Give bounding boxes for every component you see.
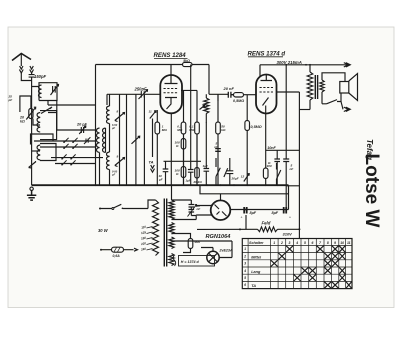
capacitor 10uF [163, 161, 169, 185]
svg-text:1: 1 [273, 241, 275, 245]
svg-text:nF: nF [214, 145, 218, 149]
svg-text:12: 12 [241, 175, 245, 179]
wire tuned circuit 2 frame [40, 111, 57, 140]
wire [48, 104, 96, 106]
wire top HT bus [96, 64, 210, 66]
svg-text:MΩ: MΩ [162, 128, 168, 132]
inductor L3 [37, 145, 40, 160]
transformer core [315, 75, 317, 99]
svg-text:RENS 1284: RENS 1284 [154, 52, 187, 59]
tube RENS 1284 grids [164, 89, 179, 93]
wire pot loop [20, 96, 31, 112]
svg-text:1: 1 [244, 247, 246, 251]
switch contact 8 [115, 113, 125, 122]
resistor 50kOhm [217, 94, 219, 185]
svg-text:20 nF: 20 nF [223, 86, 235, 91]
ground [27, 191, 36, 201]
wire [32, 150, 40, 152]
svg-text:8µF: 8µF [250, 211, 257, 215]
wire [51, 157, 103, 159]
svg-text:RENS 1374 d: RENS 1374 d [248, 50, 286, 57]
wire [309, 65, 311, 110]
label H=1374d [173, 255, 176, 266]
plug connector antenna [19, 66, 23, 73]
svg-text:1µF: 1µF [203, 164, 209, 168]
wire right HT bus [260, 65, 348, 76]
transformer secondary [320, 80, 324, 92]
switch contact 11 [150, 111, 156, 119]
wire [152, 119, 154, 158]
label underline 2 [248, 56, 283, 58]
wire [119, 94, 121, 185]
svg-text:10nF: 10nF [267, 146, 276, 150]
junction [309, 64, 311, 66]
svg-text:Lotse W: Lotse W [361, 154, 382, 228]
junction dots [95, 184, 97, 186]
transformer secondary h1 [169, 223, 174, 235]
capacitor 8uF b [284, 207, 287, 214]
svg-text:0,5MΩ: 0,5MΩ [251, 125, 262, 129]
plug connector ground [30, 187, 33, 190]
svg-text:11: 11 [347, 241, 351, 245]
inductor L4 [97, 128, 100, 152]
wire chassis corner [288, 185, 290, 209]
svg-text:Mittel: Mittel [251, 255, 262, 259]
wire B+ row [230, 209, 288, 211]
svg-text:9: 9 [334, 241, 336, 245]
wire pot stub [205, 94, 207, 122]
inductor L7 [107, 152, 110, 170]
switch contact S2 [41, 107, 52, 114]
wire cathode rail [265, 114, 267, 186]
wire left rail [31, 77, 33, 185]
wire tube1 cathode [170, 113, 172, 185]
svg-text:3: 3 [244, 262, 246, 266]
tube RENS 1284 anode [165, 75, 178, 84]
svg-text:kΩ: kΩ [20, 120, 25, 124]
wire loop lower box [31, 134, 54, 145]
wire chassis bus [32, 184, 289, 186]
resistor 0.5MOhm b [246, 95, 248, 186]
svg-text:310V: 310V [283, 232, 293, 237]
wire [100, 94, 110, 185]
capacitor 1uF a [188, 90, 194, 185]
fuse 0.6A [101, 249, 134, 251]
wire antenna lead [20, 54, 22, 67]
label underline [154, 57, 188, 59]
svg-text:5: 5 [244, 276, 246, 280]
switch mains [100, 200, 156, 209]
variable capacitor tuning [132, 136, 140, 144]
svg-text:+: + [289, 216, 291, 220]
switch contact 9 [115, 158, 125, 167]
svg-text:nF: nF [290, 167, 294, 171]
table grid Schalter [242, 239, 352, 289]
speaker driver [340, 82, 349, 94]
svg-text:Schalter: Schalter [249, 241, 264, 245]
capacitor 5nF b [283, 159, 289, 162]
potentiometer 20kOhm [29, 109, 33, 119]
resistor 0.1MOhm a [183, 90, 185, 185]
svg-text:1µF: 1µF [185, 179, 191, 183]
capacitor 250pF [139, 90, 148, 99]
svg-text:RGN1064: RGN1064 [206, 234, 232, 240]
capacitor 20nF coupling [228, 92, 234, 98]
speaker cone [349, 74, 358, 101]
lamp dial [207, 251, 219, 263]
inductor L6 [107, 106, 110, 124]
transformer secondary h3 [169, 254, 174, 266]
inductor L5 [103, 128, 106, 152]
svg-text:µF: µF [111, 126, 115, 130]
capacitor 5nF [215, 149, 221, 152]
resistor 0.1MOhm b [196, 90, 198, 185]
resistor 600Ohm [172, 234, 191, 253]
switch contact speaker [322, 93, 341, 104]
wire [143, 94, 145, 185]
svg-text:30 W: 30 W [98, 228, 109, 233]
wire cap row link [164, 160, 202, 162]
svg-text:0,6A: 0,6A [113, 254, 121, 258]
svg-text:6: 6 [244, 283, 246, 287]
wire [135, 94, 137, 185]
svg-text:5: 5 [304, 241, 306, 245]
tube RENS 1374d envelope [256, 75, 277, 114]
svg-text:Ω: Ω [175, 172, 179, 176]
svg-text:H = 1374 d: H = 1374 d [181, 260, 200, 264]
capacitor 20nF hv a [189, 200, 197, 216]
plug connector TA [151, 165, 155, 172]
svg-text:3: 3 [289, 241, 291, 245]
rectifier RGN1064 [211, 200, 231, 220]
wire band row 4 [55, 163, 96, 165]
wire grid RENS1374 [244, 94, 257, 96]
wire anode feeds [196, 206, 212, 216]
svg-text:8: 8 [327, 241, 329, 245]
svg-text:5kΩ: 5kΩ [183, 59, 190, 63]
transformer taps [147, 227, 153, 229]
switch contacts band [64, 138, 69, 143]
arrow pot wiper 2 [200, 106, 205, 110]
wire grid RENS1284 [107, 94, 161, 105]
svg-text:150pF: 150pF [34, 74, 47, 79]
switch contact 12 [244, 174, 249, 182]
tube RENS 1374d anode [261, 75, 273, 81]
svg-text:2vE23A: 2vE23A [219, 249, 233, 253]
svg-text:20 pF: 20 pF [76, 123, 88, 127]
svg-text:kΩ: kΩ [221, 128, 226, 132]
wire tuned circuit 1 frame [39, 83, 57, 101]
svg-text:µF: µF [158, 178, 163, 182]
svg-text:Lang: Lang [251, 270, 261, 274]
arrow pot wiper [26, 107, 35, 119]
wire left rail from bus [95, 65, 97, 186]
capacitor 20uF [226, 158, 233, 185]
resistor 100Ohm cathode [183, 149, 185, 185]
svg-text:2: 2 [280, 241, 283, 245]
antenna [12, 54, 31, 61]
svg-text:11: 11 [149, 110, 152, 114]
wire HV top [172, 185, 192, 200]
choke primary [307, 72, 313, 100]
heater wire lamp [172, 241, 233, 258]
svg-text:8µF: 8µF [272, 211, 279, 215]
table X marks [286, 246, 293, 252]
plug connector aux antenna [30, 66, 34, 73]
svg-text:pF: pF [8, 98, 13, 102]
trimmer capacitor C-ant [51, 85, 59, 96]
wire screen feed [181, 65, 197, 91]
capacitor 1uF b [204, 122, 210, 185]
wire speaker out [341, 102, 343, 110]
capacitor 150pF [29, 73, 35, 77]
svg-text:TA: TA [149, 160, 154, 165]
inductor L1 [39, 85, 42, 98]
svg-text:20µF: 20µF [231, 177, 239, 181]
resistor 100Ohm [181, 139, 186, 150]
resistor 5kOhm [183, 62, 193, 66]
svg-text:Ω: Ω [175, 144, 179, 148]
svg-text:6: 6 [312, 241, 314, 245]
wire trimmer row [48, 101, 96, 131]
svg-text:+: + [241, 216, 243, 220]
wire rectifier top [220, 194, 222, 201]
wire [33, 119, 40, 126]
tube RENS 1374d grids [260, 88, 274, 93]
capacitor 8uF a [244, 207, 247, 214]
wire speaker frame [322, 73, 345, 104]
svg-text:Feld: Feld [262, 221, 271, 226]
svg-text:250pF: 250pF [134, 87, 148, 92]
resistor 1MOhm [156, 110, 158, 185]
tube RENS 1284 cathode [165, 98, 177, 110]
transformer primary [153, 200, 159, 256]
plug connector speaker [344, 107, 351, 111]
svg-text:4: 4 [295, 241, 298, 245]
trimmer capacitor 20pF [79, 126, 86, 134]
wire [32, 87, 48, 106]
svg-text:0,5MΩ: 0,5MΩ [233, 99, 244, 103]
wire tone row [266, 149, 300, 151]
svg-text:600: 600 [195, 240, 201, 244]
transformer secondary HV [169, 200, 174, 220]
switch contact S3 [29, 162, 36, 169]
wire [286, 185, 299, 187]
switch contact output [277, 163, 281, 185]
svg-text:pF: pF [111, 173, 116, 177]
wire Feld leads [197, 215, 299, 229]
trimmer capacitor band [84, 137, 90, 144]
transformer secondary h2 [169, 237, 174, 249]
wire anode rail [277, 92, 300, 239]
svg-text:TA: TA [251, 284, 256, 288]
resistor 20kOhm k [196, 134, 198, 185]
svg-text:MΩ: MΩ [177, 128, 183, 132]
svg-text:Ω: Ω [267, 161, 271, 165]
wire [217, 94, 219, 101]
wire plate lead [170, 65, 172, 76]
capacitor 10nF [274, 150, 280, 185]
inductor L2 [37, 113, 40, 133]
wire HT corner [209, 65, 228, 95]
wire tuned circuit 3 frame [40, 144, 56, 161]
tube RENS 1374d cathode [263, 98, 269, 114]
resistor 0.5MOhm grid leak [234, 93, 244, 97]
transformer core main [164, 199, 166, 267]
wire HT feed row [200, 185, 289, 194]
wire band row 2 [40, 146, 96, 148]
resistor 300Ohm [263, 168, 268, 179]
wire B+ rail [285, 65, 287, 210]
arrow anode caps [188, 205, 197, 217]
potentiometer volume [204, 98, 209, 114]
wire [299, 109, 310, 111]
wire HV bottom [172, 216, 197, 220]
wire [126, 94, 128, 185]
svg-text:2: 2 [243, 254, 246, 258]
switch contact k [216, 158, 228, 185]
plug connector HT [344, 63, 351, 67]
svg-text:4: 4 [243, 269, 246, 273]
wire node A [21, 73, 31, 81]
tube RENS 1284 envelope [160, 75, 182, 113]
svg-text:10: 10 [340, 241, 344, 245]
wire [34, 140, 96, 142]
svg-text:20 kΩ: 20 kΩ [193, 180, 203, 184]
choke Feld [258, 227, 278, 232]
svg-text:nF: nF [197, 207, 201, 211]
